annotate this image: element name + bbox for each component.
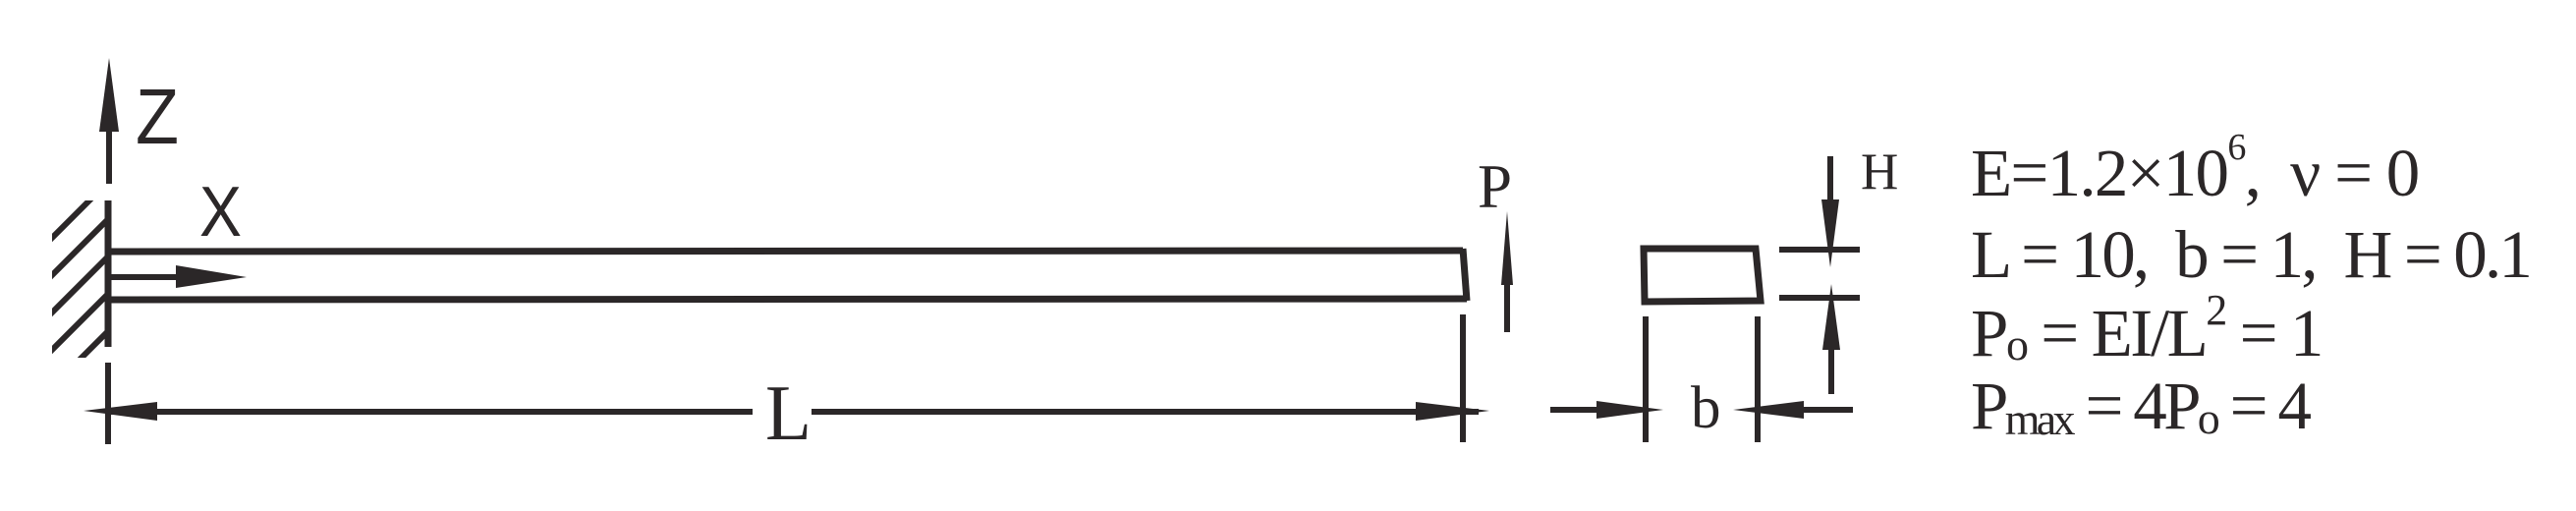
svg-text:H: H bbox=[1861, 143, 1898, 200]
svg-text:Po = EI/L2 = 1: Po = EI/L2 = 1 bbox=[1971, 286, 2322, 370]
svg-text:b: b bbox=[1691, 375, 1721, 441]
svg-text:Pmax = 4Po = 4: Pmax = 4Po = 4 bbox=[1971, 369, 2311, 444]
svg-text:E=1.2×106, ν = 0: E=1.2×106, ν = 0 bbox=[1971, 127, 2419, 210]
svg-text:L = 10, b = 1, H = 0.1: L = 10, b = 1, H = 0.1 bbox=[1971, 217, 2530, 292]
svg-text:L: L bbox=[765, 369, 812, 457]
svg-text:Z: Z bbox=[136, 73, 179, 160]
svg-text:P: P bbox=[1478, 152, 1512, 221]
svg-text:X: X bbox=[199, 173, 242, 252]
